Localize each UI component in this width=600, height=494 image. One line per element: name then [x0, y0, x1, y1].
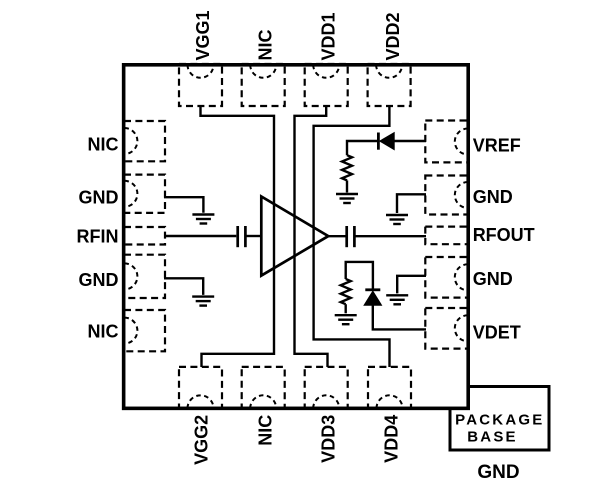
- svg-text:VDD4: VDD4: [382, 415, 402, 463]
- diode D2: [364, 290, 381, 305]
- svg-text:GND: GND: [79, 270, 119, 290]
- wire GND left upper: [164, 197, 203, 213]
- pad VDD3: [305, 367, 348, 409]
- pad RFOUT: [425, 227, 468, 245]
- wire GND left lower: [164, 278, 203, 295]
- svg-text:RFIN: RFIN: [77, 226, 119, 246]
- wire D2 to VDET: [373, 305, 426, 329]
- svg-text:GND: GND: [473, 269, 513, 289]
- package base box: [450, 387, 549, 451]
- pad VDD4: [368, 367, 411, 409]
- wire GND right upper: [397, 194, 426, 213]
- pad NIC bottom: [242, 367, 285, 409]
- svg-text:VDD3: VDD3: [319, 415, 339, 463]
- wire C1 to amp: [247, 235, 262, 237]
- svg-text:PACKAGE: PACKAGE: [455, 412, 544, 429]
- ground G6: [386, 295, 408, 304]
- ground G4: [386, 215, 408, 224]
- pad VREF: [425, 121, 468, 163]
- wire RFOUT: [356, 235, 427, 237]
- pad NIC left lower: [124, 310, 165, 351]
- wire detector tee: [346, 262, 373, 289]
- pad VGG2: [179, 367, 222, 409]
- pad NIC left upper: [124, 121, 165, 161]
- pad GND right upper: [425, 176, 468, 215]
- pad VGG1: [179, 64, 222, 106]
- svg-text:NIC: NIC: [256, 30, 276, 61]
- svg-text:BASE: BASE: [467, 429, 517, 446]
- pad GND left lower: [124, 255, 165, 298]
- resistor R2: [341, 279, 351, 304]
- wire D1 cathode to R1: [347, 141, 378, 155]
- pad VDD1: [305, 64, 348, 106]
- svg-text:GND: GND: [477, 462, 519, 483]
- svg-text:GND: GND: [473, 187, 513, 207]
- ground G1: [192, 215, 214, 224]
- ground G2: [192, 297, 214, 306]
- diode D1: [378, 133, 394, 150]
- pad GND right lower: [425, 257, 468, 298]
- svg-text:VDD1: VDD1: [319, 12, 339, 60]
- wire VREF to diode: [394, 140, 426, 142]
- capacitor C2: [347, 226, 355, 247]
- ground G5: [335, 315, 357, 324]
- svg-text:RFOUT: RFOUT: [473, 225, 535, 245]
- capacitor C1: [238, 226, 246, 247]
- resistor R1: [342, 155, 352, 180]
- wire RFIN: [164, 235, 236, 237]
- wire R1 to ground: [346, 180, 348, 192]
- pad RFIN: [124, 227, 165, 245]
- pad GND left upper: [124, 175, 165, 213]
- die outline fill: [124, 65, 469, 409]
- svg-text:GND: GND: [79, 188, 119, 208]
- pad NIC top: [242, 64, 285, 106]
- wire VGG1-VGG2 bus: [201, 105, 275, 367]
- wire VDD1-VDD3 bus: [295, 105, 328, 367]
- svg-text:NIC: NIC: [88, 322, 119, 342]
- wire R2 to ground: [345, 304, 347, 313]
- svg-text:VGG1: VGG1: [193, 10, 213, 60]
- die outline border: [124, 65, 469, 409]
- svg-text:VREF: VREF: [473, 136, 521, 156]
- op-amp U1: [261, 197, 328, 276]
- svg-text:NIC: NIC: [88, 135, 119, 155]
- wire GND right lower: [397, 276, 426, 294]
- svg-text:VDET: VDET: [473, 322, 521, 342]
- svg-text:VGG2: VGG2: [192, 415, 212, 465]
- pad VDD2: [368, 64, 411, 106]
- ground G3: [336, 194, 358, 203]
- wire amp to C2: [328, 235, 345, 237]
- wire VDD2-VDD4 bus: [314, 105, 390, 367]
- svg-text:NIC: NIC: [256, 415, 276, 446]
- pad VDET: [425, 308, 468, 349]
- svg-text:VDD2: VDD2: [383, 12, 403, 60]
